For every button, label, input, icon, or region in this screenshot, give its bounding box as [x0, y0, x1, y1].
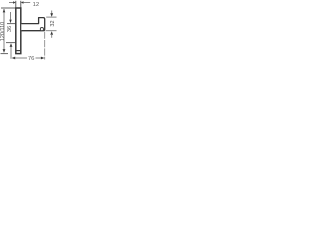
- wire: plate internal bottom edge: [15, 50, 21, 52]
- wire: extension line at plate top going left: [1, 7, 16, 9]
- svg-text:76: 76: [28, 56, 35, 62]
- wire: left dim B down arrow: [9, 20, 11, 24]
- wire: right dim upper vertical: [51, 11, 53, 14]
- wire: left dim A vertical line: [3, 9, 5, 49]
- wire: tick at arm top going left: [7, 23, 15, 25]
- wire: top dim arrow right-pointing: [13, 1, 16, 3]
- wire: top dim line left segment: [9, 2, 13, 4]
- wire: top dim arrow left-pointing: [21, 1, 24, 3]
- svg-text:32: 32: [50, 20, 56, 26]
- wire: top extension line above plate right edge: [20, 1, 22, 8]
- wire: bottom dim line left segment: [15, 57, 27, 59]
- background: [0, 0, 57, 64]
- wire: bottom dim line right segment: [36, 57, 42, 59]
- wire: right dim up arrow: [50, 31, 53, 35]
- wire: bottom dim 76 left arrow: [12, 57, 16, 60]
- wire: left dim A down arrow: [3, 49, 6, 53]
- wire: left dim A up arrow: [3, 9, 6, 13]
- wire: left dim B vertical line: [10, 12, 12, 20]
- wire: bottom tick of dim A: [1, 53, 9, 55]
- wire: bottom dim 76 right arrow: [41, 57, 45, 60]
- wire: top dim line right segment (leader to label): [24, 2, 31, 4]
- svg-text:12: 12: [33, 2, 40, 8]
- wire: right dim down arrow: [50, 13, 53, 17]
- wire: right dim lower vertical: [51, 34, 53, 38]
- component: hook tip circle detail: [40, 28, 43, 31]
- wire: lower-left dim vertical line down to 76 dim: [10, 47, 12, 59]
- wire: tick at lower plate feature going left: [6, 42, 15, 44]
- wire: lower-left dim up arrow: [10, 43, 13, 47]
- wire: top extension line above plate left edge: [15, 1, 17, 8]
- svg-text:120/110: 120/110: [0, 22, 6, 41]
- component: hook arm with upturned tip: [21, 18, 44, 31]
- wire: right ext line from arm bottom: [46, 30, 57, 32]
- wire: right ext line from hook tip top: [46, 16, 56, 18]
- wire: dashed centerline below hook tip: [44, 32, 46, 60]
- component: wall plate side view: [16, 8, 21, 54]
- svg-text:36: 36: [7, 26, 13, 32]
